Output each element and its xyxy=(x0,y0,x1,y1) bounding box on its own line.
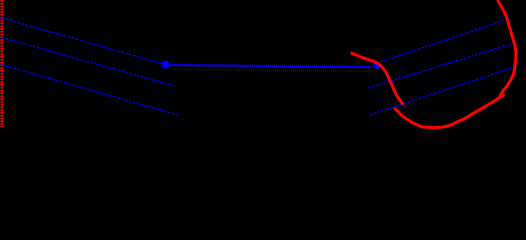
secondary focus blob xyxy=(373,61,381,69)
incident ray L2 xyxy=(2,38,176,87)
dotted zigzag axis line D1 xyxy=(170,65,372,68)
reflected ray RC xyxy=(370,68,512,115)
caustic lower branch (bowl) xyxy=(395,95,504,127)
incident ray L3 xyxy=(2,65,177,115)
reflected ray RA xyxy=(380,19,510,63)
focal point dot xyxy=(162,61,170,69)
caustic upper branch xyxy=(352,53,403,104)
mirror arc xyxy=(498,1,516,96)
reflected ray RB xyxy=(368,43,514,88)
dotted axis line D2 xyxy=(173,69,371,71)
object wavefront dashed red vertical line xyxy=(0,0,3,127)
incident ray L1 xyxy=(2,18,165,65)
